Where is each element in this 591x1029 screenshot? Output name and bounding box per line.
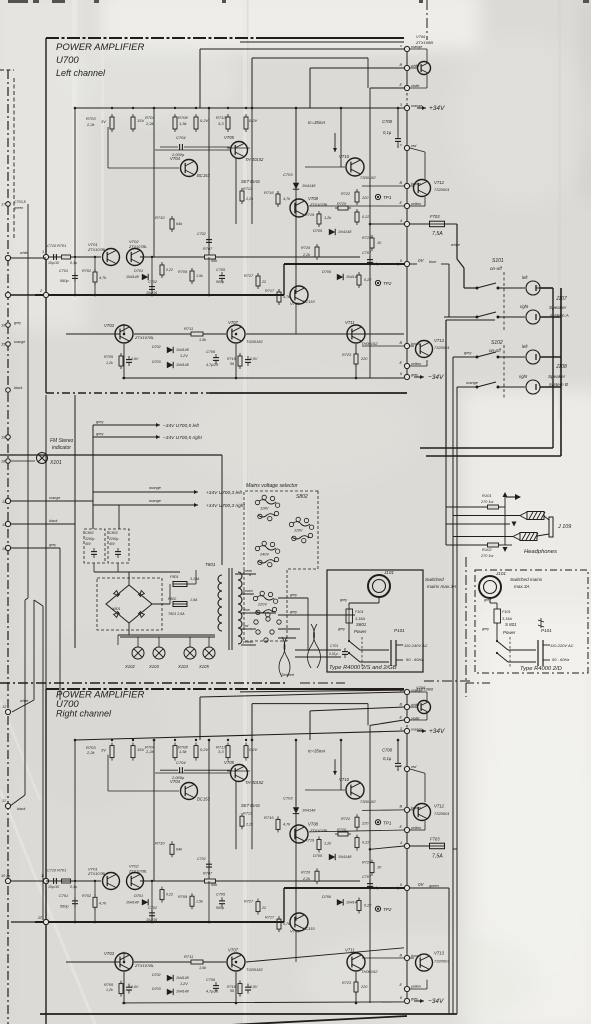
svg-text:system B: system B xyxy=(549,382,568,387)
svg-text:VT01: VT01 xyxy=(88,866,98,871)
svg-text:VT04: VT04 xyxy=(170,779,181,784)
svg-text:BC153: BC153 xyxy=(303,300,315,304)
svg-text:4,7µ/25: 4,7µ/25 xyxy=(206,363,218,367)
svg-text:F101: F101 xyxy=(502,610,511,614)
svg-text:3,3: 3,3 xyxy=(218,121,224,126)
svg-text:ZTX107BL: ZTX107BL xyxy=(128,869,147,873)
svg-text:right: right xyxy=(520,304,529,309)
svg-text:1N4148: 1N4148 xyxy=(338,230,352,234)
svg-text:TG00182: TG00182 xyxy=(246,339,263,344)
svg-text:110-240V AC: 110-240V AC xyxy=(404,643,428,648)
svg-text:brown: brown xyxy=(243,589,253,593)
svg-text:S801: S801 xyxy=(356,622,367,627)
svg-text:1N4148: 1N4148 xyxy=(338,855,352,859)
svg-text:R722: R722 xyxy=(341,192,351,196)
svg-text:3V: 3V xyxy=(101,748,106,753)
svg-text:grey: grey xyxy=(96,420,104,424)
svg-text:40V: 40V xyxy=(109,542,116,546)
svg-text:P101: P101 xyxy=(541,628,552,633)
svg-text:TH00152: TH00152 xyxy=(361,341,378,346)
svg-text:R726: R726 xyxy=(301,870,311,874)
svg-text:1: 1 xyxy=(41,874,43,878)
svg-text:−34V U700,5 right: −34V U700,5 right xyxy=(163,435,202,441)
svg-text:TP2: TP2 xyxy=(383,281,392,286)
svg-text:green: green xyxy=(14,206,23,210)
svg-text:4,7k: 4,7k xyxy=(283,922,290,926)
svg-text:D702: D702 xyxy=(152,973,161,977)
svg-text:C701: C701 xyxy=(330,644,338,648)
svg-text:220: 220 xyxy=(361,821,369,825)
svg-text:on-off: on-off xyxy=(490,266,502,271)
svg-text:yellow: yellow xyxy=(410,202,421,206)
svg-text:white: white xyxy=(451,243,460,247)
svg-text:1,5k: 1,5k xyxy=(179,749,188,754)
svg-text:J 109: J 109 xyxy=(557,524,571,530)
svg-text:grey: grey xyxy=(482,627,489,631)
svg-text:C705: C705 xyxy=(216,893,226,897)
svg-text:R727: R727 xyxy=(244,274,254,278)
svg-text:C702: C702 xyxy=(148,906,158,910)
svg-text:+34V U700,3 right: +34V U700,3 right xyxy=(206,503,245,509)
svg-text:R717: R717 xyxy=(265,916,275,920)
svg-text:1,5k: 1,5k xyxy=(196,274,203,278)
svg-text:C708: C708 xyxy=(382,748,393,753)
svg-text:0,1µ: 0,1µ xyxy=(70,885,77,889)
svg-text:C703: C703 xyxy=(283,796,293,801)
svg-text:220: 220 xyxy=(360,357,368,361)
svg-text:VT03: VT03 xyxy=(104,323,115,328)
svg-text:VT13: VT13 xyxy=(434,338,445,343)
svg-text:R707: R707 xyxy=(203,871,213,875)
svg-text:Type R4000 2/D: Type R4000 2/D xyxy=(520,666,562,672)
svg-text:Switched mains: Switched mains xyxy=(510,577,543,582)
svg-text:R713: R713 xyxy=(243,187,253,191)
svg-text:D705: D705 xyxy=(313,229,323,233)
svg-text:0,22: 0,22 xyxy=(364,904,372,908)
svg-text:black: black xyxy=(17,807,26,811)
svg-text:grey: grey xyxy=(290,610,297,614)
svg-text:500p: 500p xyxy=(216,906,224,910)
svg-text:+34V: +34V xyxy=(429,105,445,112)
svg-text:C707: C707 xyxy=(362,875,372,879)
svg-text:VT12: VT12 xyxy=(434,804,445,809)
svg-text:R726: R726 xyxy=(301,246,311,250)
svg-text:560p: 560p xyxy=(60,905,68,909)
svg-text:BC153: BC153 xyxy=(197,797,210,802)
svg-text:R715: R715 xyxy=(227,357,236,361)
svg-text:−34V: −34V xyxy=(428,998,444,1005)
svg-text:R709: R709 xyxy=(178,895,188,899)
svg-text:2200µ: 2200µ xyxy=(84,537,95,541)
svg-text:VT05: VT05 xyxy=(224,135,235,140)
svg-text:Power: Power xyxy=(503,630,516,635)
svg-text:ZTX107BL: ZTX107BL xyxy=(128,245,147,249)
svg-text:56: 56 xyxy=(230,989,234,993)
svg-text:2,2k: 2,2k xyxy=(302,253,311,257)
svg-text:F703: F703 xyxy=(430,214,440,219)
svg-text:2200µ: 2200µ xyxy=(108,537,119,541)
svg-text:VT04: VT04 xyxy=(170,156,181,161)
svg-text:0,2V: 0,2V xyxy=(249,747,258,752)
svg-text:R702: R702 xyxy=(82,894,92,898)
svg-text:P101: P101 xyxy=(394,628,405,633)
svg-text:270 1w: 270 1w xyxy=(480,554,494,558)
svg-text:VT10: VT10 xyxy=(339,777,350,782)
svg-text:R712: R712 xyxy=(216,115,226,120)
svg-text:T801 2,5A: T801 2,5A xyxy=(168,612,185,616)
svg-text:yellow: yellow xyxy=(410,985,421,989)
svg-text:R717: R717 xyxy=(265,289,275,293)
svg-text:220: 220 xyxy=(361,196,369,200)
svg-text:VT08: VT08 xyxy=(308,196,319,201)
svg-text:1N4148: 1N4148 xyxy=(176,348,189,352)
svg-text:F801: F801 xyxy=(170,575,179,579)
svg-text:C802: C802 xyxy=(85,531,94,535)
svg-text:0,2V: 0,2V xyxy=(200,747,209,752)
svg-text:10µ/10: 10µ/10 xyxy=(48,261,59,265)
svg-text:ZTX107BL: ZTX107BL xyxy=(309,829,328,833)
svg-text:1,2V: 1,2V xyxy=(180,982,188,986)
svg-text:TH 00152: TH 00152 xyxy=(245,780,264,785)
svg-text:VT13: VT13 xyxy=(434,951,445,956)
svg-text:1,2k: 1,2k xyxy=(324,842,332,846)
svg-text:R720: R720 xyxy=(337,202,347,206)
svg-text:Headphones: Headphones xyxy=(524,549,557,555)
svg-text:50 - 60Hz: 50 - 60Hz xyxy=(406,657,423,662)
svg-text:Switched: Switched xyxy=(425,577,444,582)
svg-text:C710 R701: C710 R701 xyxy=(47,244,66,248)
svg-text:7300182: 7300182 xyxy=(360,799,376,804)
svg-text:orange: orange xyxy=(411,45,422,49)
svg-text:D703: D703 xyxy=(152,360,161,364)
svg-text:ZTX107BL: ZTX107BL xyxy=(87,872,106,876)
svg-text:POWER AMPLIFIER: POWER AMPLIFIER xyxy=(56,42,144,53)
svg-text:0,1µ: 0,1µ xyxy=(383,756,392,761)
svg-text:3,15A: 3,15A xyxy=(502,617,512,621)
svg-text:R705: R705 xyxy=(104,355,114,359)
svg-text:left: left xyxy=(522,275,528,280)
svg-text:50 - 60Hz: 50 - 60Hz xyxy=(552,657,569,662)
svg-text:D706: D706 xyxy=(322,895,332,899)
svg-text:2,2k: 2,2k xyxy=(145,121,155,126)
svg-text:VT03: VT03 xyxy=(104,951,115,956)
svg-text:R711: R711 xyxy=(184,326,193,331)
svg-text:X801: X801 xyxy=(111,607,120,611)
svg-text:R702: R702 xyxy=(82,269,92,273)
svg-text:2,2k: 2,2k xyxy=(245,197,254,201)
svg-text:1,2k: 1,2k xyxy=(324,216,332,220)
svg-text:15V: 15V xyxy=(137,118,144,123)
svg-text:violet: violet xyxy=(411,84,420,88)
svg-text:Power: Power xyxy=(354,629,367,634)
svg-text:4,7µ/25: 4,7µ/25 xyxy=(206,990,218,994)
svg-text:black: black xyxy=(49,519,58,523)
svg-text:F703: F703 xyxy=(430,837,440,842)
svg-text:blue: blue xyxy=(429,260,436,264)
svg-text:R710: R710 xyxy=(155,215,165,220)
svg-text:R722: R722 xyxy=(341,817,351,821)
svg-text:black: black xyxy=(14,386,23,390)
svg-text:1N4148: 1N4148 xyxy=(176,976,189,980)
svg-text:c: c xyxy=(400,689,402,693)
svg-text:VT12: VT12 xyxy=(434,180,445,185)
svg-text:X102: X102 xyxy=(124,664,135,669)
svg-text:Ic=35mA: Ic=35mA xyxy=(308,748,326,753)
svg-text:Left channel: Left channel xyxy=(56,68,106,78)
svg-text:J101: J101 xyxy=(495,571,506,576)
svg-text:grey: grey xyxy=(290,593,297,597)
svg-text:D702: D702 xyxy=(152,345,161,349)
svg-text:2,2k: 2,2k xyxy=(245,823,254,827)
svg-text:F802: F802 xyxy=(168,597,176,601)
svg-text:56: 56 xyxy=(230,362,234,366)
svg-text:C702: C702 xyxy=(197,857,206,861)
svg-text:TH00152: TH00152 xyxy=(361,969,378,974)
svg-text:R101: R101 xyxy=(482,493,492,498)
svg-text:grey: grey xyxy=(411,997,418,1001)
svg-text:C703: C703 xyxy=(283,172,293,177)
svg-text:4,7k: 4,7k xyxy=(99,276,107,280)
svg-text:0,6V: 0,6V xyxy=(131,357,139,361)
svg-text:40V: 40V xyxy=(85,542,92,546)
svg-text:10 /w: 10 /w xyxy=(1,874,10,878)
svg-text:2,2k: 2,2k xyxy=(145,749,155,754)
svg-text:C710 R701: C710 R701 xyxy=(47,868,66,872)
svg-text:0,1µ: 0,1µ xyxy=(70,261,77,265)
svg-text:3,15A: 3,15A xyxy=(190,577,200,581)
svg-text:BC153: BC153 xyxy=(303,927,315,931)
svg-text:1N4148: 1N4148 xyxy=(126,275,139,279)
svg-text:C701: C701 xyxy=(59,894,68,898)
svg-text:2,2k: 2,2k xyxy=(86,122,96,127)
svg-text:3,3: 3,3 xyxy=(218,749,224,754)
svg-text:ZTX107BL: ZTX107BL xyxy=(87,248,106,252)
svg-text:grey: grey xyxy=(14,321,21,325)
svg-text:2,2k: 2,2k xyxy=(302,877,311,881)
svg-text:110V: 110V xyxy=(260,507,269,511)
svg-text:4,7k: 4,7k xyxy=(99,902,107,906)
svg-text:TH 00152: TH 00152 xyxy=(245,157,264,162)
svg-text:11: 11 xyxy=(2,799,6,803)
svg-text:4: 4 xyxy=(400,841,402,845)
svg-text:0,5V: 0,5V xyxy=(250,985,258,989)
svg-text:Twisted: Twisted xyxy=(281,673,295,677)
svg-text:grey: grey xyxy=(96,432,104,436)
svg-text:−34V U700,5 left: −34V U700,5 left xyxy=(163,423,200,429)
svg-text:R723: R723 xyxy=(342,981,352,985)
svg-text:1,2k: 1,2k xyxy=(106,988,113,992)
svg-text:D706: D706 xyxy=(322,270,332,274)
svg-text:VT09: VT09 xyxy=(290,928,300,933)
svg-text:−34V: −34V xyxy=(428,374,444,381)
svg-text:1,2V: 1,2V xyxy=(180,354,188,358)
svg-text:D705: D705 xyxy=(313,854,323,858)
svg-text:R719: R719 xyxy=(305,839,315,843)
svg-text:S 801: S 801 xyxy=(505,622,517,627)
svg-text:R716: R716 xyxy=(264,190,274,195)
svg-text:0,2V: 0,2V xyxy=(200,118,209,123)
svg-text:R716: R716 xyxy=(264,815,274,820)
svg-text:R713: R713 xyxy=(243,812,253,816)
svg-text:500p: 500p xyxy=(216,280,224,284)
svg-text:VT07: VT07 xyxy=(228,320,239,325)
svg-text:22: 22 xyxy=(261,280,266,284)
svg-text:grey: grey xyxy=(340,598,347,602)
svg-text:D701: D701 xyxy=(134,269,143,273)
svg-text:D703: D703 xyxy=(152,987,161,991)
svg-text:1N4148: 1N4148 xyxy=(126,900,139,904)
svg-text:grey: grey xyxy=(338,627,345,631)
svg-text:S101: S101 xyxy=(492,258,504,264)
svg-text:C705: C705 xyxy=(216,268,226,272)
svg-text:C701: C701 xyxy=(59,269,68,273)
svg-text:R708: R708 xyxy=(178,115,188,120)
svg-text:R710: R710 xyxy=(155,841,165,846)
svg-text:1,5k: 1,5k xyxy=(179,121,188,126)
svg-text:0,22: 0,22 xyxy=(166,268,173,272)
svg-text:7320001: 7320001 xyxy=(434,811,450,816)
svg-text:D701: D701 xyxy=(134,894,143,898)
svg-text:0,1µ: 0,1µ xyxy=(383,130,392,135)
svg-text:VT05: VT05 xyxy=(224,760,235,765)
svg-text:R102: R102 xyxy=(482,547,492,552)
svg-text:110V: 110V xyxy=(294,529,303,533)
svg-text:S802: S802 xyxy=(296,494,308,500)
svg-text:C803: C803 xyxy=(109,531,118,535)
svg-text:0V: 0V xyxy=(418,258,425,263)
svg-text:Ic=35mA: Ic=35mA xyxy=(308,120,326,125)
svg-text:VT07: VT07 xyxy=(228,948,239,953)
svg-text:SET BIAS: SET BIAS xyxy=(241,803,260,808)
svg-text:1,6A: 1,6A xyxy=(190,598,198,602)
svg-text:0,22: 0,22 xyxy=(166,893,173,897)
svg-text:Right channel: Right channel xyxy=(56,709,112,719)
svg-text:7,5A: 7,5A xyxy=(432,854,443,860)
svg-text:T801: T801 xyxy=(205,562,216,567)
svg-text:orange: orange xyxy=(411,104,422,108)
svg-text:C706: C706 xyxy=(206,978,216,982)
svg-text:VT01: VT01 xyxy=(88,242,98,247)
svg-text:green: green xyxy=(429,884,439,888)
svg-text:grey: grey xyxy=(464,351,472,355)
svg-text:C704: C704 xyxy=(176,135,186,140)
svg-text:C702: C702 xyxy=(197,232,206,236)
svg-text:1N4148: 1N4148 xyxy=(176,363,189,367)
svg-text:X103: X103 xyxy=(148,664,159,669)
svg-text:R719: R719 xyxy=(305,213,315,217)
svg-text:VT11: VT11 xyxy=(345,320,355,325)
svg-text:0,2V: 0,2V xyxy=(249,118,258,123)
svg-text:white: white xyxy=(20,251,28,255)
svg-text:0,6V: 0,6V xyxy=(131,985,139,989)
svg-text:2,2k: 2,2k xyxy=(86,750,96,755)
svg-text:0,22: 0,22 xyxy=(364,278,372,282)
svg-text:J101: J101 xyxy=(383,570,394,575)
svg-text:orange: orange xyxy=(466,381,478,385)
svg-text:mains max.3A: mains max.3A xyxy=(427,584,456,589)
svg-text:VT02: VT02 xyxy=(129,864,139,869)
svg-text:10µ/10: 10µ/10 xyxy=(48,885,59,889)
svg-text:C703,8: C703,8 xyxy=(14,200,26,204)
svg-text:orange: orange xyxy=(149,499,161,503)
svg-text:ZTX107BL: ZTX107BL xyxy=(134,963,154,968)
svg-text:F101: F101 xyxy=(355,610,364,614)
svg-text:VT02: VT02 xyxy=(129,239,139,244)
svg-text:TG00182: TG00182 xyxy=(246,967,263,972)
svg-text:220V: 220V xyxy=(257,603,267,607)
svg-text:white: white xyxy=(20,699,28,703)
svg-text:ZTX108B: ZTX108B xyxy=(415,687,433,692)
svg-text:0,22: 0,22 xyxy=(362,841,370,845)
svg-text:Type R4000 2/S and 2/GB: Type R4000 2/S and 2/GB xyxy=(329,665,397,671)
svg-text:grey: grey xyxy=(411,373,418,377)
svg-text:C704: C704 xyxy=(176,760,186,765)
svg-text:indicator: indicator xyxy=(52,445,71,451)
svg-text:BC153: BC153 xyxy=(197,173,210,178)
svg-text:7,5A: 7,5A xyxy=(432,231,443,237)
svg-text:TP2: TP2 xyxy=(383,907,392,912)
svg-text:c: c xyxy=(400,764,402,768)
svg-text:1N4148: 1N4148 xyxy=(302,809,316,813)
svg-text:X104: X104 xyxy=(177,664,188,669)
svg-text:orange: orange xyxy=(14,340,25,344)
svg-text:1: 1 xyxy=(42,249,44,254)
svg-text:ZTX107BL: ZTX107BL xyxy=(134,335,154,340)
svg-text:FM Stereo: FM Stereo xyxy=(50,438,74,444)
svg-text:560p: 560p xyxy=(60,279,68,283)
svg-text:R711: R711 xyxy=(184,954,193,959)
svg-text:R709: R709 xyxy=(178,270,188,274)
svg-text:110-220V AC: 110-220V AC xyxy=(550,643,574,648)
svg-text:R707: R707 xyxy=(203,247,213,251)
svg-text:R723: R723 xyxy=(342,353,352,357)
svg-text:R703: R703 xyxy=(86,116,96,121)
svg-text:4: 4 xyxy=(400,219,402,223)
svg-text:4,7k: 4,7k xyxy=(283,295,290,299)
svg-text:1N4148: 1N4148 xyxy=(176,990,189,994)
svg-text:4,7k: 4,7k xyxy=(283,823,291,827)
svg-text:orange: orange xyxy=(149,486,161,490)
svg-text:1N4148: 1N4148 xyxy=(302,184,316,188)
svg-text:TP1: TP1 xyxy=(383,820,392,825)
svg-text:1,5k: 1,5k xyxy=(199,966,207,970)
svg-text:X101: X101 xyxy=(49,460,62,466)
svg-text:U700: U700 xyxy=(56,55,79,66)
svg-text:+34V U700,3 left: +34V U700,3 left xyxy=(206,490,243,496)
svg-text:3V: 3V xyxy=(101,119,106,124)
svg-text:240V: 240V xyxy=(259,553,269,557)
svg-text:220: 220 xyxy=(360,985,368,989)
svg-text:11: 11 xyxy=(2,523,6,527)
svg-text:7320001: 7320001 xyxy=(434,959,450,964)
svg-text:3,15A: 3,15A xyxy=(355,617,365,621)
svg-text:C702: C702 xyxy=(148,280,158,284)
svg-text:1,2k: 1,2k xyxy=(106,361,113,365)
svg-text:VT08: VT08 xyxy=(308,822,319,827)
svg-text:+34V: +34V xyxy=(429,728,445,735)
svg-text:grey: grey xyxy=(49,543,56,547)
svg-text:C707: C707 xyxy=(362,251,372,255)
svg-text:7300182: 7300182 xyxy=(360,175,376,180)
svg-text:0,01µ: 0,01µ xyxy=(329,652,338,656)
svg-text:Mains voltage selector: Mains voltage selector xyxy=(246,483,298,489)
svg-text:VT11: VT11 xyxy=(345,948,355,953)
svg-text:ZTX108B: ZTX108B xyxy=(415,40,433,45)
svg-text:0V: 0V xyxy=(418,882,425,887)
svg-text:7320001: 7320001 xyxy=(434,187,450,192)
svg-text:1,5k: 1,5k xyxy=(199,338,207,342)
svg-text:right: right xyxy=(519,374,528,379)
